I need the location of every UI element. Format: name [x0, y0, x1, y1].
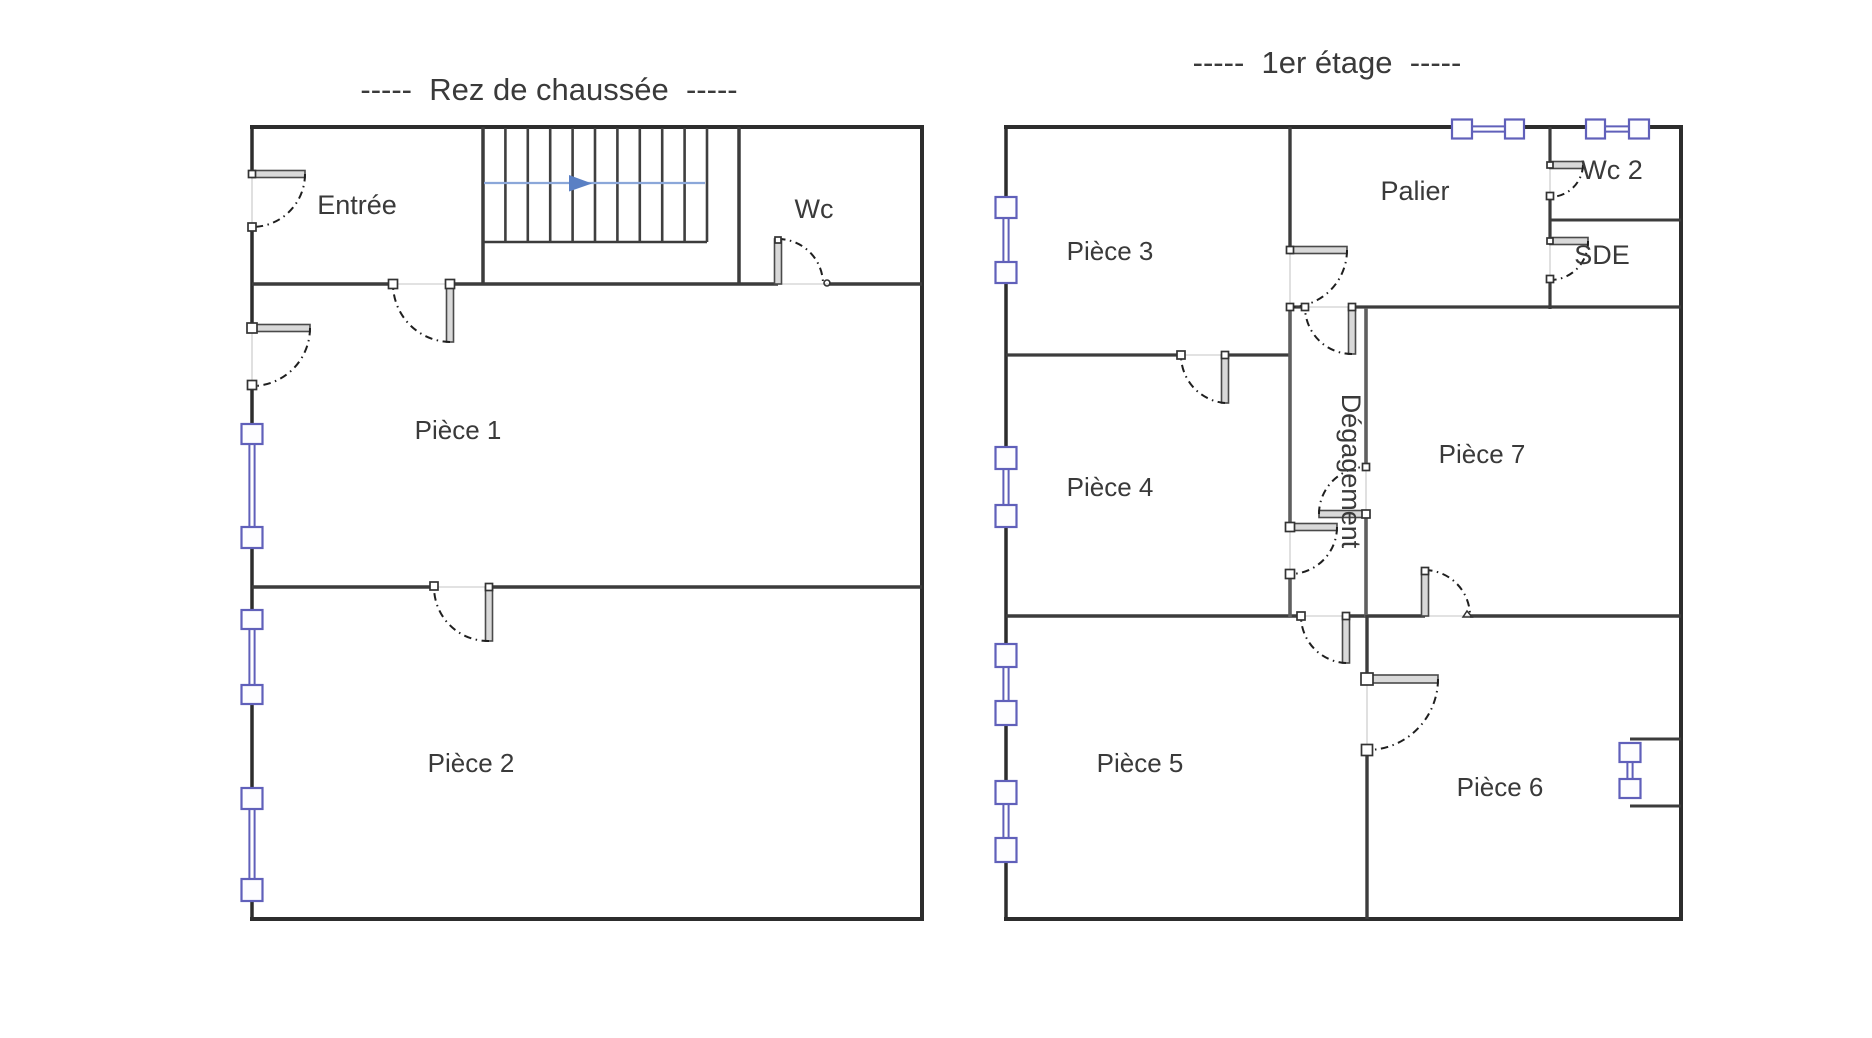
- svg-text:Pièce 5: Pièce 5: [1097, 748, 1184, 778]
- svg-text:Entrée: Entrée: [317, 190, 397, 220]
- svg-text:Pièce 4: Pièce 4: [1067, 472, 1154, 502]
- svg-text:Palier: Palier: [1380, 176, 1449, 206]
- svg-text:Pièce 1: Pièce 1: [415, 415, 502, 445]
- svg-text:SDE: SDE: [1574, 240, 1630, 270]
- svg-text:----- Rez de chaussée -----: ----- Rez de chaussée -----: [360, 72, 737, 107]
- svg-text:Pièce 3: Pièce 3: [1067, 236, 1154, 266]
- svg-text:Wc: Wc: [795, 194, 834, 224]
- svg-text:Pièce 2: Pièce 2: [428, 748, 515, 778]
- svg-text:----- 1er étage -----: ----- 1er étage -----: [1193, 45, 1462, 80]
- svg-text:Wc 2: Wc 2: [1581, 155, 1643, 185]
- svg-text:Pièce 6: Pièce 6: [1457, 772, 1544, 802]
- svg-text:Dégagement: Dégagement: [1336, 394, 1366, 549]
- svg-text:Pièce 7: Pièce 7: [1439, 439, 1526, 469]
